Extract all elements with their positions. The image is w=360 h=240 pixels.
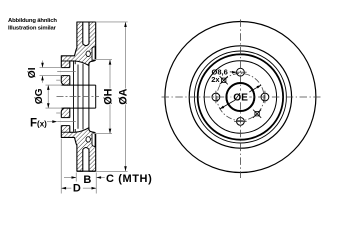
svg-text:ØG: ØG (34, 88, 45, 104)
svg-text:ØE: ØE (233, 92, 248, 103)
svg-text:ØA: ØA (118, 88, 130, 104)
svg-text:C (MTH): C (MTH) (106, 173, 152, 185)
svg-text:F(x): F(x) (30, 118, 47, 130)
svg-text:Abbildung ähnlich: Abbildung ähnlich (8, 18, 57, 24)
svg-text:ØH: ØH (102, 88, 114, 104)
svg-text:B: B (83, 174, 91, 186)
svg-text:Illustration similar: Illustration similar (8, 26, 57, 32)
svg-text:ØI: ØI (27, 67, 38, 78)
svg-text:D: D (73, 183, 81, 195)
svg-text:2x: 2x (211, 75, 220, 84)
